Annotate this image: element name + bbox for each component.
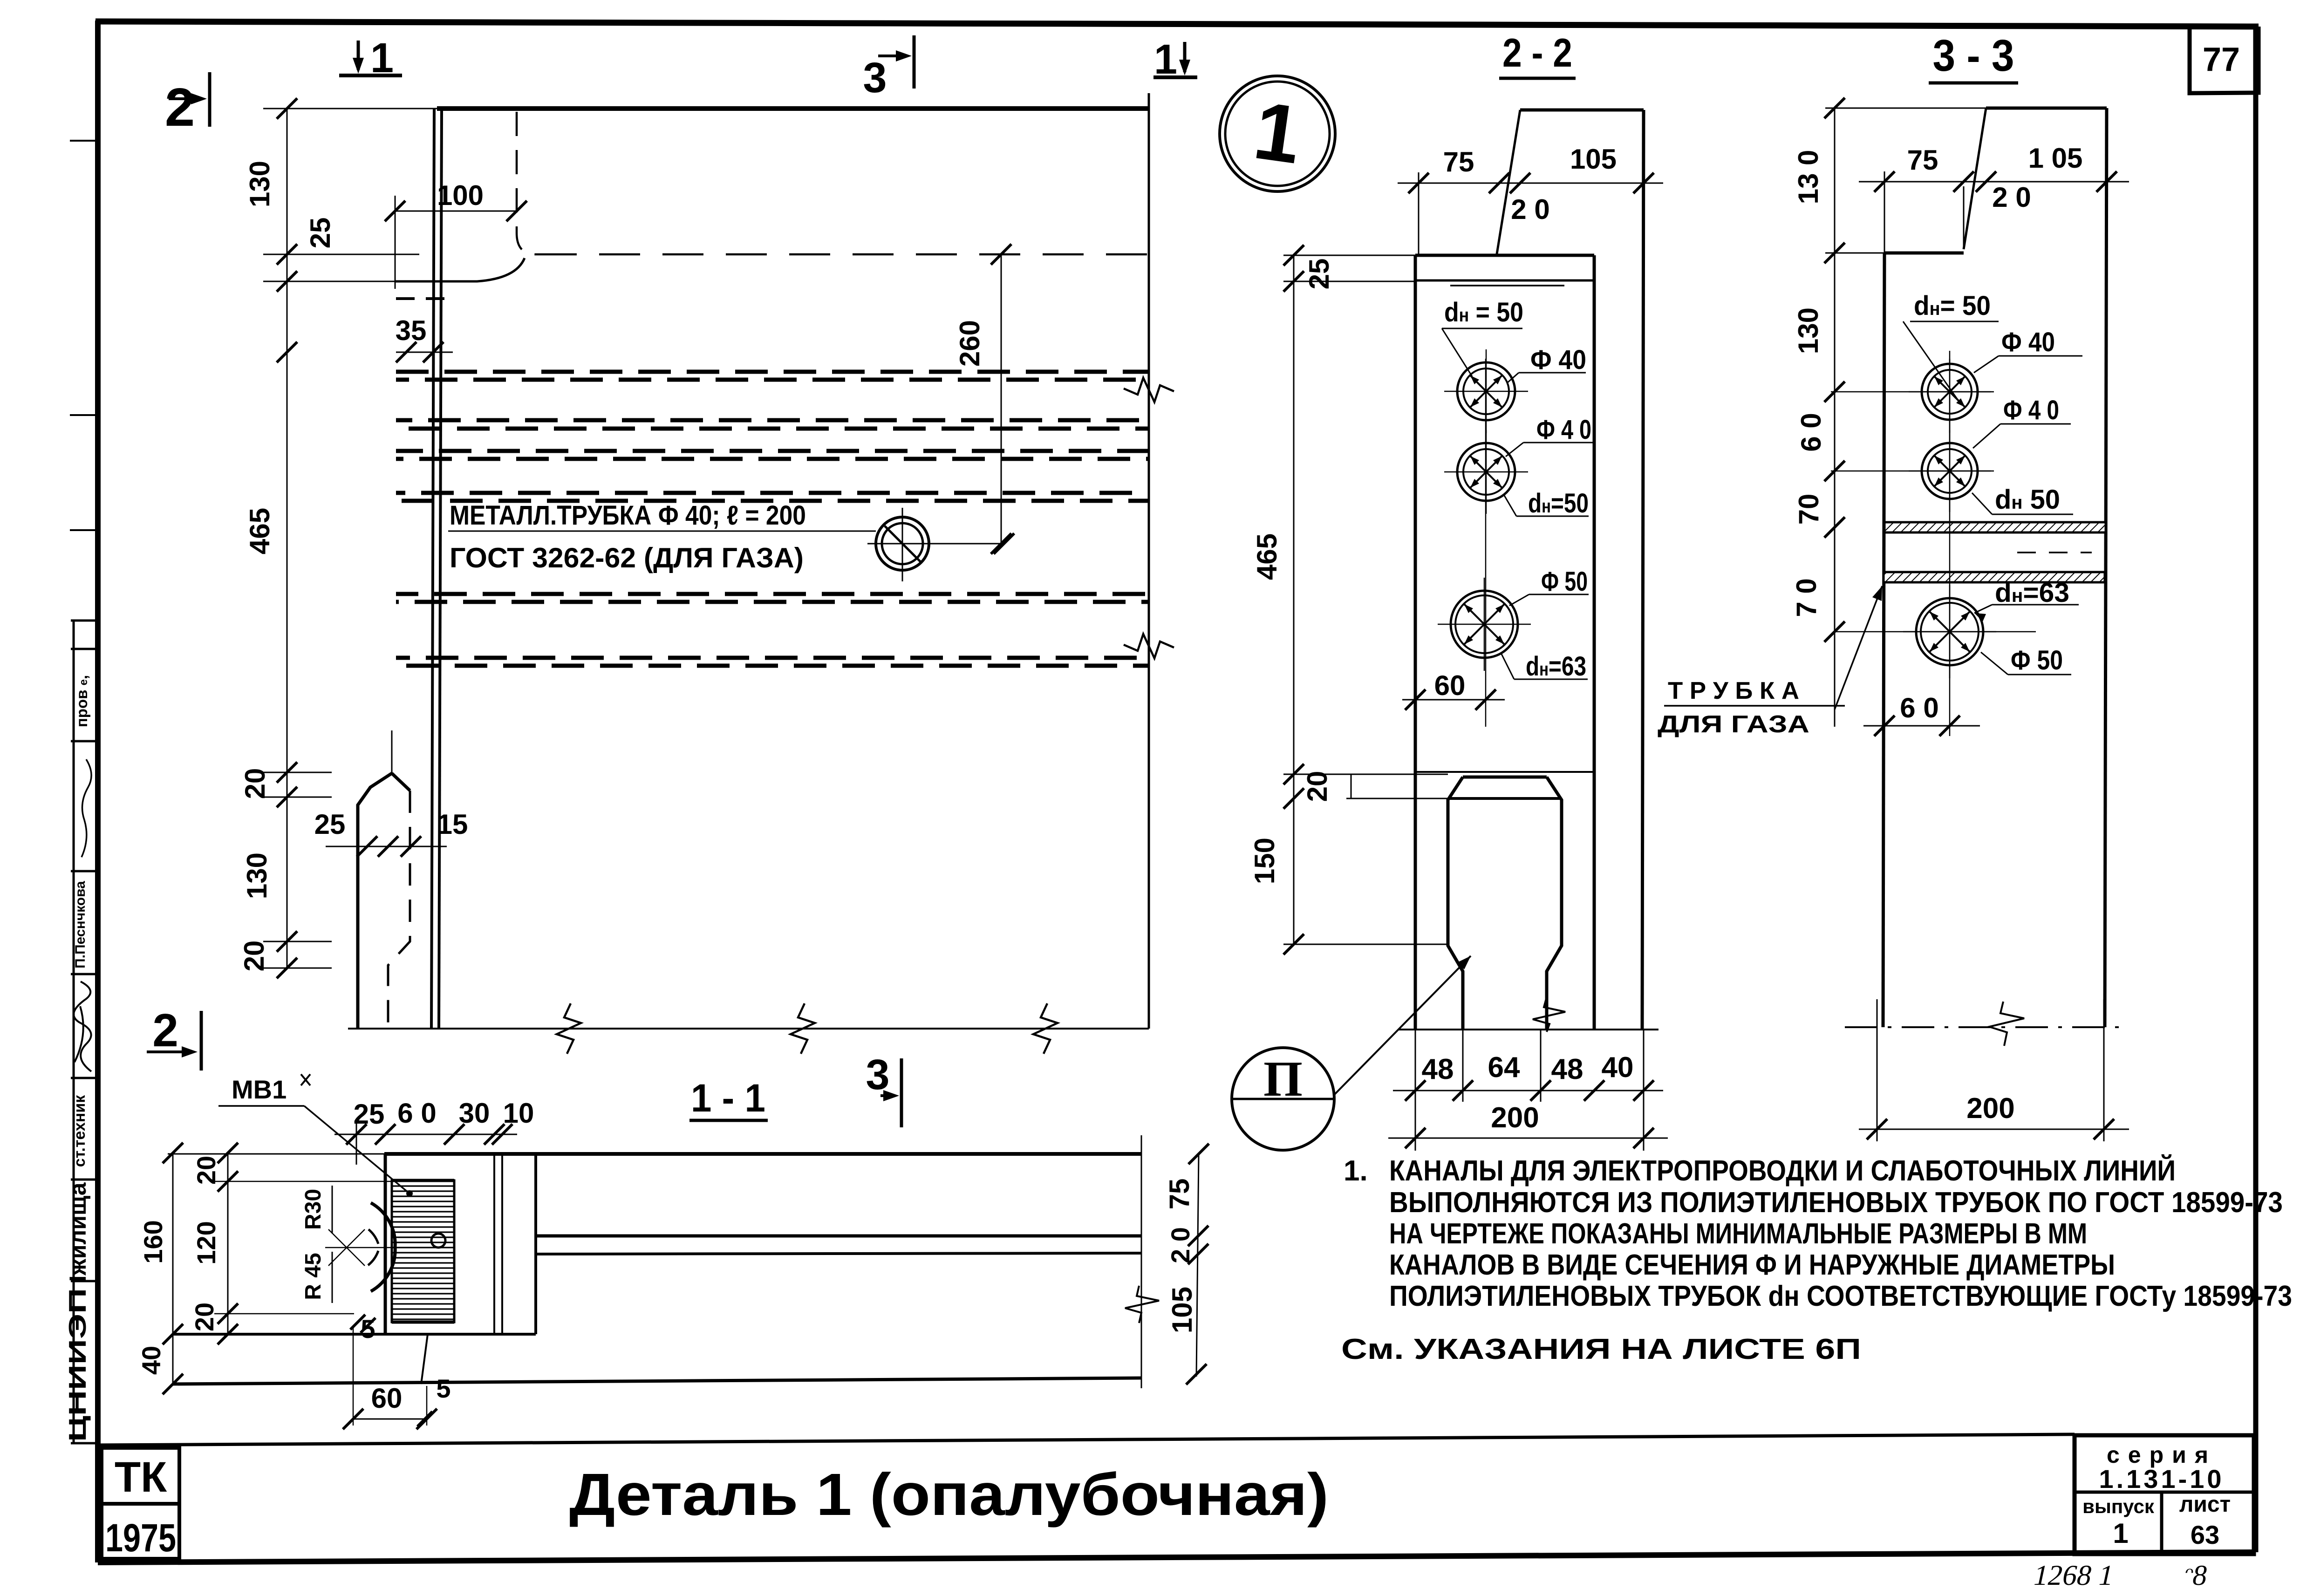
svg-text:dн= 50: dн= 50 (1914, 291, 1991, 321)
elevation: tongue peak extension line (391, 730, 393, 774)
plan: ext line 120 bottom (214, 1313, 354, 1315)
svg-text:dн=50: dн=50 (1528, 488, 1589, 518)
svg-text:25: 25 (1304, 259, 1335, 290)
svg-text:25: 25 (354, 1098, 385, 1130)
s33: dash between bands (2017, 552, 2092, 553)
svg-text:70: 70 (1793, 494, 1824, 525)
svg-text:1.131-10: 1.131-10 (2099, 1464, 2224, 1494)
svg-text:60: 60 (371, 1383, 403, 1414)
svg-text:75: 75 (1443, 146, 1474, 177)
svg-text:5: 5 (436, 1374, 450, 1403)
svg-text:КАНАЛОВ В ВИДЕ СЕЧЕНИЯ Ф: КАНАЛОВ В ВИДЕ СЕЧЕНИЯ Ф И НАРУЖНЫЕ ДИАМ… (1389, 1249, 2115, 1281)
plan: left dim inner line (227, 1153, 229, 1334)
svg-text:2 0: 2 0 (1166, 1227, 1195, 1263)
svg-text:КАНАЛЫ ДЛЯ ЭЛЕКТРОПРОВОДКИ: КАНАЛЫ ДЛЯ ЭЛЕКТРОПРОВОДКИ И СЛАБОТОЧНЫХ… (1389, 1154, 2176, 1187)
s22: second tick line for 20/150 (1351, 774, 1352, 798)
svg-text:15: 15 (437, 809, 468, 840)
svg-text:20: 20 (239, 941, 270, 972)
elevation: dim 25-15 line (326, 846, 447, 847)
detail circle 1 (1220, 76, 1335, 191)
svg-text:20: 20 (239, 768, 271, 799)
svg-text:13 0: 13 0 (1793, 150, 1824, 205)
s33: slant (1964, 108, 1986, 249)
svg-text:2: 2 (152, 1004, 178, 1057)
elevation: channel row 3 dashed pair (396, 449, 1149, 453)
detail circle P (1232, 1048, 1334, 1150)
svg-text:6 0: 6 0 (397, 1098, 436, 1129)
plan: panel end vertical (384, 1154, 387, 1334)
svg-text:75: 75 (1164, 1179, 1195, 1210)
svg-text:48: 48 (1551, 1053, 1583, 1085)
elevation: ext line 35 (396, 352, 453, 353)
svg-text:200: 200 (1491, 1102, 1539, 1134)
svg-text:40: 40 (136, 1346, 166, 1375)
svg-text:1 - 1: 1 - 1 (691, 1076, 765, 1120)
svg-text:dн=63: dн=63 (1995, 578, 2069, 608)
plan: dim 60 bottom (353, 1419, 427, 1420)
elevation: top edge (437, 106, 1149, 111)
svg-text:2 0: 2 0 (1511, 194, 1549, 225)
plan: block hole (431, 1234, 445, 1248)
s22: outer board top (1520, 109, 1644, 112)
elevation: hidden top edge vertical dashed (517, 112, 536, 254)
bottom band top line (98, 1434, 2075, 1445)
s22: channel circle 2 (1457, 443, 1515, 501)
svg-text:48: 48 (1422, 1053, 1454, 1085)
marker 1 top-left (339, 74, 402, 77)
elevation: dim 100 line (395, 211, 517, 212)
s33: slab band 1 (1884, 522, 2106, 532)
svg-text:1975: 1975 (105, 1516, 176, 1560)
plan: notch arc R45 (371, 1203, 395, 1291)
plan: left dim outer line (172, 1153, 174, 1384)
svg-text:20: 20 (190, 1303, 219, 1331)
svg-text:dн=63: dн=63 (1526, 651, 1586, 682)
svg-text:ГОСТ 3262-62 (ДЛЯ ГАЗА): ГОСТ 3262-62 (ДЛЯ ГАЗА) (450, 542, 804, 573)
svg-text:3 - 3: 3 - 3 (1933, 31, 2014, 81)
s33: right edge (2105, 108, 2107, 1027)
marker 1 top-right (1153, 75, 1197, 79)
elevation: right edge break 1 (1124, 378, 1174, 402)
elevation: channel row 4 dashed pair (396, 491, 1149, 495)
plan: double line right of block (493, 1154, 495, 1334)
svg-text:П: П (1263, 1051, 1303, 1107)
plan: wall face bottom (536, 1253, 1141, 1254)
elevation: wall double line left (431, 109, 434, 1029)
plan: right ext vertical (1141, 1135, 1142, 1388)
elevation: tube centerlines (902, 508, 903, 581)
s22: column right edge (1593, 255, 1596, 1030)
s22: channel circle 1 (1457, 362, 1515, 420)
s33: left edge (1883, 253, 1884, 1027)
elevation: bottom edge (348, 1028, 1149, 1030)
s22: keyway top (1463, 776, 1547, 779)
s22: top dim line (1398, 183, 1663, 184)
s33: c1 horizontal centerline (1831, 391, 1994, 393)
svg-text:25: 25 (314, 809, 346, 840)
svg-text:ВЫПОЛНЯЮТСЯ ИЗ ПОЛИЭТИЛЕНОВЫ: ВЫПОЛНЯЮТСЯ ИЗ ПОЛИЭТИЛЕНОВЫХ ТРУБОК ПО … (1389, 1187, 2283, 1219)
svg-text:2 - 2: 2 - 2 (1502, 31, 1572, 75)
plan: block top thick (392, 1179, 454, 1182)
elevation: metal tube circle (876, 517, 929, 570)
s33: c2 horizontal centerline (1831, 471, 1994, 472)
plan: block bottom thick (392, 1321, 454, 1324)
svg-text:3: 3 (863, 54, 887, 102)
svg-text:выпуск: выпуск (2082, 1495, 2155, 1517)
elevation: hidden edge horizontal dashed 130 level (536, 253, 1149, 256)
page top border (96, 21, 2259, 27)
s33: channel circle 3 (1916, 598, 1983, 665)
elevation: bottom break at 1221 (557, 1003, 581, 1054)
svg-text:20: 20 (191, 1156, 221, 1185)
elevation: channel row 6 dashed pair (396, 656, 1149, 660)
svg-text:ПОЛИЭТИЛЕНОВЫХ ТРУБОК dн СО: ПОЛИЭТИЛЕНОВЫХ ТРУБОК dн СООТВЕТСТВУЮЩИЕ… (1389, 1280, 2292, 1312)
plan: notch arc R30 fragments (369, 1229, 378, 1244)
svg-text:Iжилища: Iжилища (65, 1182, 91, 1282)
plan: arc center cross (328, 1229, 365, 1266)
title block divider horizontal (2075, 1491, 2254, 1494)
s22: channel circle 3 (1451, 591, 1518, 658)
s33: channel circle 2 (1922, 443, 1978, 499)
s22: keyway octagon (1448, 777, 1463, 1030)
s22: cap bottom line (1415, 280, 1594, 282)
s22: cap lip (1450, 285, 1564, 286)
elevation: left dim chain line (287, 109, 288, 968)
stamp column dividers (71, 620, 99, 622)
detail circle P leader (1333, 956, 1471, 1096)
plan: slab bottom line (173, 1378, 1141, 1384)
svg-text:ТК: ТК (115, 1453, 167, 1501)
handwriting 8 (2182, 1559, 2210, 1591)
elevation: bottom break at 1723 (791, 1003, 815, 1054)
elevation: ext line 130 (263, 254, 419, 255)
svg-text:77: 77 (2203, 41, 2240, 78)
s33: trubka leader (1835, 586, 1882, 709)
s22: column left edge (1414, 255, 1417, 1030)
s22: band line above keyway (1415, 771, 1594, 773)
svg-text:120: 120 (191, 1221, 221, 1264)
elevation: ext line top (263, 108, 438, 109)
svg-text:dн = 50: dн = 50 (1444, 297, 1523, 327)
svg-text:150: 150 (1249, 838, 1280, 884)
svg-text:1: 1 (1154, 36, 1177, 83)
s22: board slant (1497, 110, 1520, 254)
plan: MV1 leader (304, 1106, 409, 1194)
plan: wall face top (536, 1235, 1141, 1238)
elevation: small dashes below ledge (396, 297, 447, 300)
stamp signature 2 (74, 982, 91, 1071)
title block frame (2075, 1435, 2254, 1554)
s33: top (1986, 107, 2107, 110)
svg-text:Деталь 1 (опалубочная): Деталь 1 (опалубочная) (569, 1461, 1329, 1528)
svg-text:260: 260 (954, 320, 985, 367)
svg-text:20: 20 (1302, 771, 1333, 802)
svg-text:МВ1: МВ1 (232, 1075, 287, 1104)
plan: inner end vertical (534, 1154, 537, 1334)
elevation: right edge break 2 (1124, 634, 1174, 658)
svg-text:60: 60 (1434, 670, 1466, 701)
svg-text:130: 130 (241, 853, 273, 899)
svg-text:10: 10 (503, 1098, 534, 1129)
svg-text:2: 2 (165, 77, 195, 137)
svg-text:2 0: 2 0 (1992, 182, 2031, 213)
svg-text:35: 35 (396, 315, 427, 346)
svg-text:R30: R30 (301, 1189, 326, 1230)
svg-text:Ф 4 0: Ф 4 0 (2003, 395, 2059, 425)
page left border (95, 20, 101, 1562)
s22: circles centerline (1485, 359, 1487, 727)
s33: c3 horizontal centerline (1835, 631, 2036, 633)
svg-text:7 0: 7 0 (1791, 578, 1822, 617)
svg-text:465: 465 (244, 508, 275, 554)
stamp signature 1 (82, 759, 91, 857)
svg-text:Ф 4 0: Ф 4 0 (1536, 415, 1591, 445)
svg-text:R 45: R 45 (301, 1253, 326, 1300)
svg-text:130: 130 (244, 161, 275, 207)
s33: top dim line (1859, 181, 2129, 183)
handwriting 1268 (2031, 1559, 2117, 1591)
svg-text:ст.техник: ст.техник (71, 1095, 89, 1167)
svg-text:6 0: 6 0 (1900, 692, 1938, 723)
s33: bottom break (1989, 1002, 2024, 1046)
svg-text:160: 160 (138, 1220, 168, 1263)
svg-text:МЕТАЛЛ.ТРУБКА Ф 40; ℓ = 200: МЕТАЛЛ.ТРУБКА Ф 40; ℓ = 200 (450, 500, 806, 531)
svg-text:Ф 40: Ф 40 (1530, 345, 1586, 375)
svg-text:105: 105 (1167, 1287, 1198, 1333)
svg-text:6 0: 6 0 (1795, 413, 1827, 451)
elevation: channel row 2 dashed pair (396, 418, 1149, 423)
s33: step (1884, 252, 1964, 255)
s22: bottom line (1399, 1029, 1658, 1030)
elevation: wall double line right (439, 109, 442, 1029)
s22: top cap line (1415, 254, 1594, 257)
plan: 5 offset diagonal (421, 1334, 428, 1384)
svg-text:64: 64 (1488, 1051, 1520, 1084)
svg-text:63: 63 (2191, 1520, 2219, 1549)
s33: bottom dashdot (1845, 1026, 2124, 1028)
elevation: ext line 25 (263, 281, 395, 282)
border ticks upper (70, 140, 101, 142)
elevation: right edge (1148, 93, 1150, 1029)
elevation: channel row 1 dashed pair (396, 370, 1149, 374)
plan: right dim chain (1196, 1154, 1199, 1377)
svg-text:200: 200 (1966, 1092, 2014, 1125)
svg-text:См. УКАЗАНИЯ НА ЛИСТЕ 6: См. УКАЗАНИЯ НА ЛИСТЕ 6П (1341, 1333, 1861, 1365)
s22: left dim chain (1293, 255, 1295, 944)
elevation: tube diagonal (885, 526, 921, 562)
svg-text:1.: 1. (1344, 1155, 1368, 1187)
stamp column outer line (73, 621, 75, 1444)
TK box (102, 1448, 179, 1504)
plan: top edge (384, 1152, 1141, 1156)
title block divider vertical (2160, 1492, 2164, 1554)
s33: dim 200 (1859, 1129, 2129, 1130)
plan: top ext line thin (168, 1153, 384, 1155)
s22: outer board right edge (1642, 110, 1644, 1030)
svg-text:130: 130 (1793, 307, 1824, 354)
svg-text:ЦНИИЭП: ЦНИИЭП (64, 1288, 91, 1442)
s22: dim 200 (1388, 1138, 1668, 1139)
elevation: tongue outline (358, 773, 392, 1029)
plan: top dim row line (334, 1134, 517, 1135)
svg-text:465: 465 (1251, 533, 1283, 580)
svg-text:Т Р У Б К А: Т Р У Б К А (1668, 677, 1799, 704)
1975 box (102, 1504, 179, 1559)
page right border (2253, 27, 2259, 1552)
sheet number box 77 (2190, 27, 2259, 93)
svg-text:75: 75 (1907, 144, 1938, 176)
svg-text:Ф 40: Ф 40 (2001, 327, 2055, 357)
s33: left dim chain (1834, 108, 1836, 727)
svg-text:лист: лист (2179, 1492, 2231, 1517)
elevation: channel row 5 dashed pair (396, 592, 1149, 596)
svg-text:30: 30 (459, 1098, 490, 1129)
s22: bottom dim line 48-64-48-40 (1393, 1090, 1663, 1091)
svg-text:1: 1 (2113, 1518, 2128, 1549)
plan: slab break (1125, 1286, 1159, 1323)
svg-text:1268 1: 1268 1 (2031, 1559, 2117, 1591)
elevation: ledge line 25 level (395, 258, 525, 281)
elevation: ext lines tongue (263, 772, 332, 773)
svg-text:105: 105 (1570, 143, 1617, 175)
s33: slab band 2 (1884, 572, 2105, 582)
s33: circles centerline (1949, 359, 1951, 736)
plan: panel bottom edge left part (173, 1333, 536, 1336)
elevation: tongue hidden edge dashed (388, 791, 410, 1029)
plan: wood block outline (392, 1180, 454, 1322)
elevation: dim 260 line (1001, 254, 1002, 544)
svg-text:dн 50: dн 50 (1995, 484, 2060, 515)
elevation: bottom break at 2244 (1033, 1003, 1058, 1054)
elevation: callout underline (448, 531, 876, 532)
svg-text:40: 40 (1602, 1051, 1634, 1084)
svg-text:П.Песнчкова: П.Песнчкова (73, 881, 88, 969)
plan: ext line 20 top (214, 1181, 392, 1182)
s22: neck break (1533, 997, 1565, 1032)
svg-text:НА ЧЕРТЕЖЕ ПОКАЗАНЫ МИНИМАЛЬ: НА ЧЕРТЕЖЕ ПОКАЗАНЫ МИНИМАЛЬНЫЕ РАЗМЕРЫ … (1389, 1218, 2087, 1250)
svg-text:25: 25 (305, 218, 336, 249)
s22: keyway bevel bottom line (1448, 797, 1562, 800)
svg-text:Ф 50: Ф 50 (2011, 645, 2063, 675)
svg-text:1: 1 (370, 35, 394, 82)
svg-text:100: 100 (437, 180, 484, 211)
svg-text:Ф 50: Ф 50 (1541, 566, 1588, 597)
s33: channel circle 1 (1922, 364, 1978, 420)
svg-text:ДЛЯ ГАЗА: ДЛЯ ГАЗА (1658, 711, 1809, 738)
svg-text:1 05: 1 05 (2028, 143, 2083, 174)
page bottom border (98, 1552, 2256, 1562)
